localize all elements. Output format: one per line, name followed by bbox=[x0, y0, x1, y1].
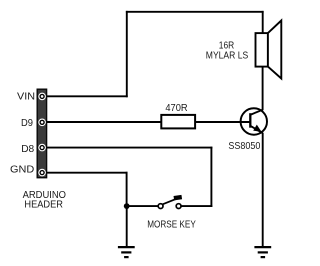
ground symbol 1 bbox=[118, 247, 135, 257]
wire speaker top lead bbox=[262, 11, 264, 33]
morse key S1 knob bbox=[174, 195, 183, 200]
svg-text:HEADER: HEADER bbox=[24, 200, 63, 211]
header J1 body bbox=[37, 89, 46, 178]
transistor Q1 emitter diagonal with arrow bbox=[251, 126, 263, 133]
ground symbol 2 bbox=[254, 247, 271, 257]
svg-text:470R: 470R bbox=[165, 103, 187, 114]
svg-text:D8: D8 bbox=[21, 144, 34, 155]
transistor Q1 collector diagonal bbox=[251, 110, 263, 115]
wire collector lead bbox=[262, 67, 264, 111]
morse key S1 left terminal bbox=[158, 204, 163, 209]
header J1 pin D8 bbox=[38, 144, 46, 152]
wire key left lead bbox=[127, 205, 158, 207]
wire to ground 1 bbox=[126, 206, 128, 247]
morse key S1 lever bbox=[163, 198, 178, 204]
resistor R1 body bbox=[161, 115, 195, 128]
transistor Q1 base bar bbox=[249, 113, 251, 128]
wire key right lead bbox=[181, 205, 212, 207]
wire VIN riser bbox=[126, 11, 128, 97]
wire D8 lead bbox=[46, 147, 213, 149]
wire D8 riser bbox=[210, 147, 212, 207]
wire VIN pin to corner bbox=[46, 95, 128, 97]
wire base lead bbox=[195, 121, 250, 123]
svg-text:MYLAR LS: MYLAR LS bbox=[206, 50, 249, 61]
header J1 pin D9 bbox=[38, 119, 46, 127]
svg-text:SS8050: SS8050 bbox=[228, 141, 260, 152]
morse key S1 right terminal bbox=[176, 204, 181, 209]
wire GND lead bbox=[46, 172, 128, 174]
header J1 pin GND bbox=[38, 169, 46, 177]
transistor Q1 circle bbox=[241, 108, 267, 134]
svg-text:D9: D9 bbox=[21, 118, 33, 129]
speaker LS1 body bbox=[256, 33, 268, 67]
svg-text:VIN: VIN bbox=[17, 92, 35, 103]
speaker LS1 cone bbox=[268, 21, 281, 79]
wire GND riser bbox=[126, 172, 128, 206]
node junction bbox=[124, 203, 130, 209]
wire emitter lead bbox=[262, 133, 264, 247]
header J1 pin VIN bbox=[38, 93, 46, 101]
wire D9 lead bbox=[46, 121, 163, 123]
svg-text:GND: GND bbox=[10, 164, 34, 175]
svg-text:MORSE KEY: MORSE KEY bbox=[147, 220, 196, 231]
wire top horizontal bbox=[126, 11, 264, 13]
